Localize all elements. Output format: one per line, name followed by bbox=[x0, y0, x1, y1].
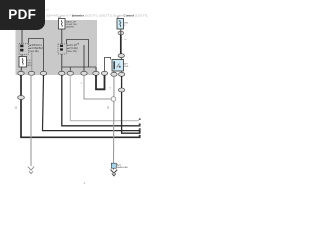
drop to oval col 96 bbox=[95, 67, 97, 72]
svg-text:4: 4 bbox=[84, 181, 86, 185]
svg-text:B: B bbox=[108, 107, 110, 110]
U jumper cols 96-104.5 bbox=[96, 75, 105, 89]
wire end tick T5 bbox=[139, 135, 141, 137]
jumper wire from oval 104.5 up into B3 bbox=[105, 58, 111, 72]
svg-text:1J: 1J bbox=[15, 107, 18, 110]
connector oval C5 bbox=[67, 71, 73, 75]
connector J2 (dashed box center) bbox=[58, 44, 67, 54]
wire end tick T2 bbox=[139, 124, 141, 126]
component box B3 (relay, cyan) bbox=[112, 60, 124, 72]
wire col62 to corner bbox=[62, 75, 141, 126]
svg-text:2: 2 bbox=[81, 83, 83, 85]
svg-text:2004 4AT gear 6-T (wheeler (1G: 2004 4AT gear 6-T (wheeler (1G0,TT), (1G… bbox=[46, 13, 149, 17]
wire end tick T4 bbox=[139, 131, 141, 133]
PDF badge label bbox=[0, 0, 45, 30]
svg-text:A21: A21 bbox=[117, 163, 122, 166]
wire col121.6 down to corner bbox=[122, 76, 141, 133]
svg-text:(4A-FE): (4A-FE) bbox=[66, 26, 74, 29]
svg-text:1E: 1E bbox=[124, 39, 127, 41]
component box B1 (top center) bbox=[59, 19, 66, 30]
bus wire y67 bbox=[62, 66, 96, 68]
bottom cyan connector C11 bbox=[111, 163, 116, 168]
connector oval C2 bbox=[28, 71, 34, 75]
svg-text:SHIELDED: SHIELDED bbox=[117, 167, 128, 169]
ground G1 bbox=[28, 167, 34, 171]
wire loop from J1 to column 3 bbox=[29, 39, 44, 72]
ground G2 bbox=[113, 168, 115, 169]
svg-text:A/T: A/T bbox=[124, 63, 128, 66]
B3 bottom pins bbox=[113, 71, 115, 72]
wire J2 down to bus y67 bbox=[61, 54, 63, 72]
connector oval C8 bbox=[101, 71, 107, 75]
connector oval C6 bbox=[81, 71, 87, 75]
svg-text:2: 2 bbox=[124, 25, 126, 27]
oval below B2 bbox=[118, 31, 124, 35]
svg-text:(see 1G): (see 1G) bbox=[67, 50, 77, 53]
wire loop J2 over to column x88.5 bbox=[67, 40, 89, 68]
svg-text:5: 5 bbox=[110, 88, 112, 90]
svg-text:(see 1E): (see 1E) bbox=[30, 50, 39, 53]
oval on col21 bbox=[18, 96, 25, 100]
PDF badge bbox=[0, 0, 45, 30]
connector oval C9 (B3 pin 1) bbox=[111, 72, 117, 76]
wire col31 gray to ground bbox=[30, 75, 32, 166]
gray loop col84 to junction circle bbox=[84, 75, 112, 99]
connector oval C10 (B3 pin 2) bbox=[118, 72, 124, 76]
connector J1 (dashed box left) bbox=[19, 44, 29, 55]
switch S1 (park/neutral position switch) bbox=[19, 57, 27, 68]
engine compartment shaded area bbox=[16, 20, 98, 75]
wire end tick T1 bbox=[139, 118, 141, 120]
wire col 84 bbox=[83, 45, 85, 72]
oval above B3 bbox=[118, 54, 124, 58]
svg-text:EW: EW bbox=[46, 10, 49, 12]
svg-text:(AT): (AT) bbox=[27, 64, 31, 67]
wire B1 down to J2 bbox=[61, 29, 63, 44]
drop to oval col 70.3 bbox=[69, 67, 71, 72]
connector oval C4 bbox=[59, 71, 65, 75]
wire col70 light to corner bbox=[70, 75, 139, 121]
wire end tick T3 bbox=[139, 128, 141, 130]
svg-text:BACK-UP: BACK-UP bbox=[66, 20, 76, 23]
connector oval C3 bbox=[40, 71, 46, 75]
component box B2 (top right, cyan) bbox=[117, 19, 124, 30]
connector oval C1 bbox=[18, 71, 24, 75]
wire B2 down to box B3 bbox=[120, 35, 122, 54]
wire J1 to switch S1 bbox=[21, 55, 23, 57]
wire: second column (gray) from badge down bbox=[31, 53, 33, 72]
wire col21 thick to corner bbox=[21, 75, 141, 137]
wire: left column from badge down bbox=[21, 29, 23, 44]
oval on col121.6 bbox=[118, 88, 124, 92]
wire S1 to oval bbox=[20, 67, 23, 72]
wire col114 gray down bbox=[113, 76, 116, 163]
junction circle bbox=[111, 97, 116, 102]
svg-text:SOL: SOL bbox=[124, 66, 129, 68]
connector oval C7 bbox=[93, 71, 99, 75]
wire col42.5 to corner bbox=[43, 75, 141, 131]
